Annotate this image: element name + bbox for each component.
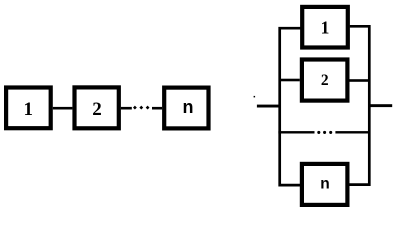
ellipsis dots (series)	[133, 106, 150, 110]
wire series: block2 to dots	[121, 107, 132, 110]
wire: right rail with top branch from block 1 and bottom branch from block n (parallel)	[350, 26, 370, 184]
svg-text:n: n	[320, 176, 329, 193]
svg-text:n: n	[183, 97, 194, 117]
block 1 (series)	[6, 88, 51, 129]
wire series: block1 to block2	[53, 107, 73, 110]
wire: block 2 to right rail (parallel)	[350, 79, 369, 82]
wire: dots row right segment (parallel)	[335, 131, 370, 133]
svg-text:1: 1	[321, 18, 330, 38]
block n (parallel)	[302, 164, 348, 205]
wire: dots row left segment (parallel)	[278, 131, 314, 133]
stray dot artifact	[254, 96, 256, 98]
svg-text:1: 1	[23, 99, 33, 120]
wire: left input lead (parallel)	[257, 105, 281, 108]
svg-text:2: 2	[92, 99, 102, 120]
ellipsis dots (parallel)	[317, 131, 332, 134]
block 2 (parallel)	[302, 60, 348, 101]
block 1 (parallel)	[302, 7, 348, 48]
wire: left rail with top branch to block 1 and bottom branch to block n (parallel)	[280, 28, 301, 185]
wire: left rail to block 2 (parallel)	[281, 79, 300, 82]
block n (series)	[164, 88, 208, 129]
block 2 (series)	[75, 87, 119, 128]
wire: right output lead (parallel)	[369, 104, 392, 107]
wire series: dots to block n	[152, 107, 162, 110]
svg-text:2: 2	[321, 72, 329, 89]
